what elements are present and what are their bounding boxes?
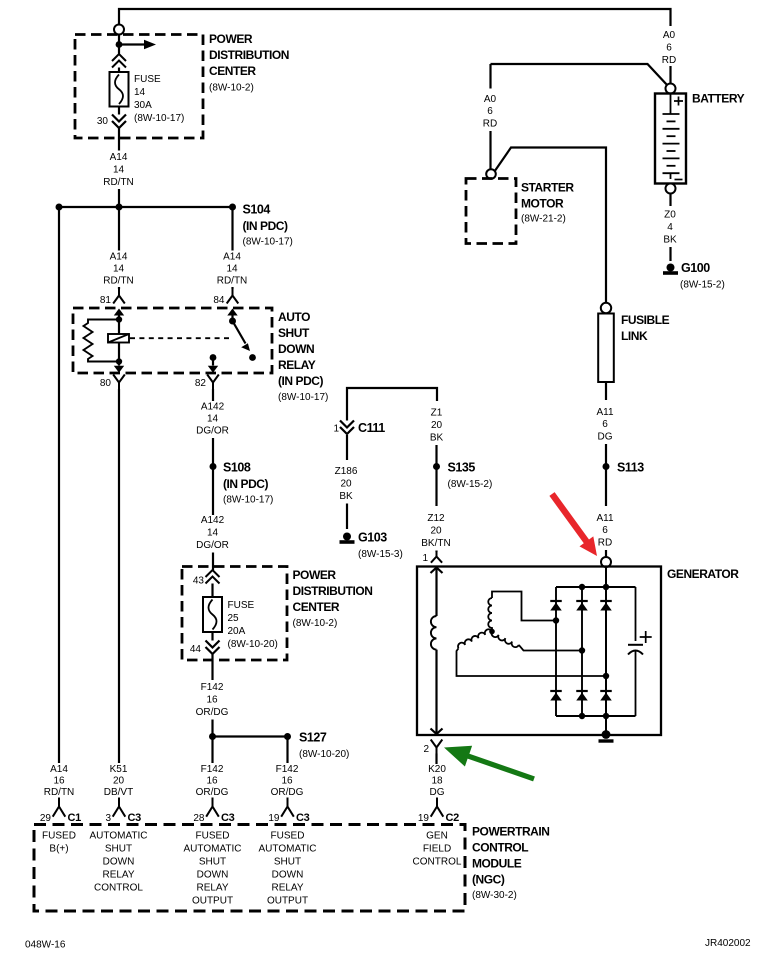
wire label to S127	[211, 720, 213, 737]
wire S135 down	[435, 467, 437, 507]
svg-text:CENTER: CENTER	[209, 64, 256, 78]
wire label to G100	[669, 247, 671, 261]
svg-text:C2: C2	[446, 812, 460, 824]
diode bridge bottom rail	[556, 715, 636, 717]
svg-text:JR402002: JR402002	[705, 938, 751, 949]
svg-text:16: 16	[206, 776, 218, 787]
svg-text:(IN PDC): (IN PDC)	[243, 219, 289, 233]
svg-text:14: 14	[226, 264, 238, 275]
wire pin 30 down to label A14	[118, 128, 120, 151]
svg-text:OR/DG: OR/DG	[196, 787, 229, 798]
svg-text:16: 16	[281, 776, 293, 787]
svg-text:(8W-10-17): (8W-10-17)	[278, 392, 328, 403]
svg-text:GENERATOR: GENERATOR	[667, 567, 739, 581]
generator stator phase A coil	[488, 598, 492, 632]
svg-text:OR/DG: OR/DG	[271, 787, 304, 798]
svg-text:AUTOMATIC: AUTOMATIC	[259, 844, 317, 855]
generator stator phase A lead	[492, 592, 556, 621]
svg-text:BK/TN: BK/TN	[421, 538, 450, 549]
svg-text:DB/VT: DB/VT	[104, 787, 133, 798]
svg-text:F142: F142	[201, 682, 224, 693]
svg-text:(8W-10-17): (8W-10-17)	[243, 237, 293, 248]
svg-text:GEN: GEN	[426, 831, 448, 842]
svg-text:(IN PDC): (IN PDC)	[223, 477, 269, 491]
svg-text:(8W-10-20): (8W-10-20)	[228, 639, 278, 650]
svg-text:S127: S127	[299, 731, 327, 745]
svg-text:A14: A14	[223, 252, 241, 263]
generator stator phase B lead	[457, 648, 607, 676]
red annotation arrow (generator output)	[549, 492, 597, 556]
svg-text:16: 16	[206, 695, 218, 706]
pin 84 connector symbol	[227, 289, 239, 304]
svg-text:CONTROL: CONTROL	[472, 841, 528, 855]
svg-text:(8W-15-2): (8W-15-2)	[680, 280, 725, 291]
svg-text:6: 6	[602, 419, 608, 430]
svg-text:BATTERY: BATTERY	[692, 92, 745, 106]
starter motor box	[466, 179, 516, 244]
relay pin 82 arrow inside	[212, 358, 214, 366]
svg-text:DG/OR: DG/OR	[196, 426, 229, 437]
svg-text:CONTROL: CONTROL	[413, 857, 462, 868]
svg-text:(8W-10-20): (8W-10-20)	[299, 749, 349, 760]
diode bridge left column	[555, 587, 557, 716]
wire pin 44 down	[211, 654, 213, 680]
junction dot phase B to bridge	[603, 673, 609, 679]
svg-text:S108: S108	[223, 461, 251, 475]
svg-text:18: 18	[431, 776, 443, 787]
svg-text:A11: A11	[596, 407, 613, 418]
relay mechanical link (dashed)	[130, 337, 231, 339]
svg-text:82: 82	[195, 378, 207, 389]
svg-text:C111: C111	[358, 421, 385, 435]
wire label to S113	[605, 444, 607, 467]
svg-text:A0: A0	[663, 30, 676, 41]
svg-text:RD/TN: RD/TN	[103, 177, 134, 188]
battery body	[655, 94, 686, 184]
svg-text:C3: C3	[128, 812, 142, 824]
wire K20 generator to PCM	[435, 754, 437, 765]
wire starter to fusible link	[495, 148, 606, 303]
svg-text:FIELD: FIELD	[423, 844, 451, 855]
svg-text:RD: RD	[598, 538, 612, 549]
svg-text:BK: BK	[663, 235, 677, 246]
svg-text:2: 2	[423, 744, 429, 755]
wire Z1 bridge (S135 to C111)	[347, 388, 437, 421]
diode D6 lower right	[600, 690, 612, 692]
svg-text:OUTPUT: OUTPUT	[267, 896, 308, 907]
svg-text:19: 19	[418, 813, 430, 824]
pin 29 connector symbol	[53, 798, 66, 817]
ground G100	[667, 264, 675, 272]
wire chevrons to fuse 25	[211, 584, 213, 598]
wire label to generator terminal	[605, 550, 607, 557]
svg-text:14: 14	[134, 87, 146, 98]
pin 80 connector symbol	[113, 375, 125, 390]
svg-text:C1: C1	[68, 812, 82, 824]
junction dot S127 left	[209, 733, 216, 740]
svg-text:44: 44	[190, 644, 202, 655]
wire S127 right branch down	[286, 737, 288, 764]
svg-text:OUTPUT: OUTPUT	[192, 896, 233, 907]
svg-text:SHUT: SHUT	[274, 857, 301, 868]
relay pin 84 arrow inside	[227, 309, 237, 316]
svg-text:20: 20	[430, 526, 442, 537]
svg-text:RELAY: RELAY	[196, 883, 228, 894]
svg-text:LINK: LINK	[621, 329, 648, 343]
wire K51 relay pin 80 to PCM	[118, 389, 120, 763]
pin 81 connector symbol	[113, 289, 125, 304]
battery minus sign	[675, 179, 683, 181]
wire S127 horizontal	[213, 735, 288, 737]
svg-text:14: 14	[113, 264, 125, 275]
svg-text:6: 6	[666, 43, 672, 54]
wire S108 down	[212, 467, 214, 516]
wire label to pin 84	[231, 287, 233, 289]
green annotation arrow (field control pin 2)	[444, 746, 535, 782]
svg-text:(IN PDC): (IN PDC)	[278, 374, 324, 388]
relay coil top junction dot	[116, 316, 122, 322]
pin 82 connector symbol	[207, 375, 219, 390]
wire S127 left branch down	[211, 737, 213, 764]
svg-text:(8W-15-2): (8W-15-2)	[448, 479, 493, 490]
svg-text:CONTROL: CONTROL	[94, 883, 143, 894]
svg-text:FUSIBLE: FUSIBLE	[621, 313, 670, 327]
svg-text:CENTER: CENTER	[293, 600, 340, 614]
diode D3 upper right	[600, 600, 612, 602]
svg-text:RD/TN: RD/TN	[103, 276, 134, 287]
svg-text:C3: C3	[296, 812, 310, 824]
junction dot S135	[433, 463, 440, 470]
svg-text:20: 20	[431, 420, 443, 431]
svg-text:K51: K51	[110, 764, 128, 775]
diode D2 upper middle	[576, 600, 588, 602]
svg-text:AUTO: AUTO	[278, 310, 310, 324]
diode bridge top rail	[556, 586, 636, 588]
junction dot S108	[210, 463, 217, 470]
relay contact dot (unused throw)	[249, 354, 256, 361]
svg-text:16: 16	[53, 776, 65, 787]
svg-text:SHUT: SHUT	[105, 844, 132, 855]
terminal circle PDC B+ feed	[114, 25, 124, 35]
svg-text:BK: BK	[430, 433, 444, 444]
svg-text:STARTER: STARTER	[521, 181, 574, 195]
svg-text:048W-16: 048W-16	[25, 940, 66, 951]
svg-text:POWERTRAIN: POWERTRAIN	[472, 825, 550, 839]
capacitor plus sign	[640, 631, 652, 643]
fuse F14 30A	[110, 72, 129, 107]
wire A142 from relay pin 82	[212, 389, 214, 401]
svg-text:19: 19	[268, 813, 280, 824]
connector chevrons pin 44	[206, 641, 220, 655]
svg-text:14: 14	[207, 414, 219, 425]
stator center junction dot	[489, 629, 495, 635]
relay switch arm (normally open)	[233, 321, 246, 344]
connector chevrons pin 43	[206, 570, 220, 584]
starter motor terminal circle	[486, 169, 496, 179]
svg-text:28: 28	[193, 813, 205, 824]
wire label to S135	[435, 445, 437, 467]
svg-text:DOWN: DOWN	[272, 870, 304, 881]
svg-text:A142: A142	[201, 515, 225, 526]
svg-text:(8W-15-3): (8W-15-3)	[358, 549, 403, 560]
junction dot S127	[284, 733, 291, 740]
arrow PDC bus feed (points right)	[122, 43, 145, 45]
wire A0 to battery below label	[669, 66, 671, 84]
svg-text:DG: DG	[430, 787, 445, 798]
generator output terminal circle	[601, 557, 611, 567]
junction dot S113	[603, 463, 610, 470]
wire S104 bus horizontal	[59, 206, 233, 208]
junction dot S104	[229, 204, 236, 211]
battery bottom stub	[670, 173, 672, 179]
svg-text:S104: S104	[243, 203, 271, 217]
diode bridge middle column	[581, 587, 583, 716]
svg-text:30A: 30A	[134, 100, 152, 111]
svg-text:RELAY: RELAY	[271, 883, 303, 894]
svg-text:29: 29	[40, 813, 52, 824]
svg-text:B(+): B(+)	[49, 844, 68, 855]
wire S104 to relay pin 84	[231, 207, 233, 251]
svg-text:FUSED: FUSED	[271, 831, 305, 842]
wire C111 to label Z186	[346, 435, 348, 460]
auto shut down relay box	[73, 308, 272, 373]
pin 19 C2 connector symbol	[431, 798, 444, 817]
wire S104 to relay pin 81	[118, 207, 120, 251]
svg-text:A14: A14	[50, 764, 68, 775]
wire fusible link down	[605, 382, 607, 400]
svg-text:(NGC): (NGC)	[472, 873, 505, 887]
svg-text:A14: A14	[110, 252, 128, 263]
relay switch pivot dot	[229, 318, 236, 325]
svg-text:S135: S135	[448, 461, 476, 475]
svg-text:1: 1	[333, 424, 339, 435]
pin 19 C3 connector symbol	[281, 798, 294, 817]
svg-text:RELAY: RELAY	[102, 870, 134, 881]
svg-text:20A: 20A	[228, 626, 246, 637]
svg-text:80: 80	[100, 378, 112, 389]
wire label to starter terminal	[489, 131, 491, 169]
svg-text:F142: F142	[201, 764, 224, 775]
svg-text:RD/TN: RD/TN	[44, 787, 75, 798]
svg-text:Z186: Z186	[335, 466, 358, 477]
wire label to G103	[346, 504, 348, 530]
svg-text:FUSED: FUSED	[42, 831, 76, 842]
battery top stub	[670, 94, 672, 115]
battery terminal circle top	[666, 84, 676, 94]
relay coil winding (box with diagonal)	[118, 321, 120, 334]
pin 3 connector symbol	[113, 798, 126, 817]
svg-text:81: 81	[100, 295, 112, 306]
connector chevrons above fuse 14	[112, 54, 126, 68]
svg-text:(8W-21-2): (8W-21-2)	[521, 214, 566, 225]
power distribution center box (8W-10-2)	[75, 35, 203, 139]
wire label to S108	[212, 438, 214, 467]
svg-text:25: 25	[228, 613, 240, 624]
svg-text:6: 6	[602, 525, 608, 536]
junction dot top rail mid	[579, 584, 585, 590]
svg-text:A14: A14	[110, 152, 128, 163]
svg-text:RELAY: RELAY	[278, 358, 316, 372]
svg-text:BK: BK	[339, 491, 353, 502]
fuse F25 20A	[203, 597, 222, 632]
svg-text:S113: S113	[617, 461, 644, 475]
svg-text:C3: C3	[221, 812, 235, 824]
svg-text:OR/DG: OR/DG	[196, 707, 229, 718]
connector chevrons pin 30	[112, 115, 126, 129]
svg-text:(8W-30-2): (8W-30-2)	[472, 890, 517, 901]
svg-text:AUTOMATIC: AUTOMATIC	[184, 844, 242, 855]
junction dot phase C to bridge	[579, 647, 585, 653]
svg-text:(8W-10-17): (8W-10-17)	[223, 495, 273, 506]
generator pin 2 connector symbol	[431, 740, 443, 755]
battery plates	[663, 113, 680, 115]
relay resistor R (parallel with coil)	[84, 320, 120, 362]
svg-text:Z12: Z12	[427, 513, 445, 524]
wire fuse 14 to pin 30	[118, 107, 120, 115]
svg-text:DOWN: DOWN	[278, 342, 314, 356]
battery plus sign	[674, 97, 683, 106]
wire from terminal into PDC	[118, 35, 120, 54]
svg-text:SHUT: SHUT	[199, 857, 226, 868]
diode bridge output column	[605, 567, 607, 731]
junction dot left branch	[56, 204, 63, 211]
connector C111 chevrons	[340, 421, 354, 435]
battery terminal circle bottom	[666, 184, 676, 194]
svg-text:DG: DG	[598, 432, 613, 443]
svg-text:DISTRIBUTION: DISTRIBUTION	[209, 48, 289, 62]
svg-text:FUSED: FUSED	[196, 831, 230, 842]
svg-text:30: 30	[97, 116, 109, 127]
junction dot phase A to bridge	[553, 617, 559, 623]
svg-text:G103: G103	[358, 531, 387, 545]
svg-text:3: 3	[105, 813, 111, 824]
svg-text:Z0: Z0	[664, 210, 676, 221]
svg-text:A11: A11	[596, 513, 613, 524]
svg-text:RD/TN: RD/TN	[217, 276, 248, 287]
svg-text:(8W-10-2): (8W-10-2)	[209, 83, 254, 94]
generator field coil	[431, 616, 437, 650]
wire label to PDC fuse box	[212, 553, 214, 571]
svg-text:Z1: Z1	[431, 408, 443, 419]
svg-text:DISTRIBUTION: DISTRIBUTION	[293, 584, 373, 598]
junction dot PDC bus	[116, 41, 123, 48]
diode D4 lower left	[550, 690, 562, 692]
generator stator phase C coil (right)	[492, 632, 519, 648]
wire label to S104 bus	[118, 189, 120, 207]
fusible link body	[598, 314, 614, 383]
wire starter drop	[489, 64, 491, 89]
ground G103	[343, 533, 351, 541]
svg-text:FUSE: FUSE	[228, 600, 255, 611]
svg-text:FUSE: FUSE	[134, 74, 161, 85]
wire battery feed top	[119, 9, 671, 26]
relay pin 81 arrow inside	[114, 309, 124, 316]
junction dot bottom rail right	[603, 713, 609, 719]
svg-text:14: 14	[207, 528, 219, 539]
svg-text:(8W-10-17): (8W-10-17)	[134, 113, 184, 124]
wire S113 down	[605, 467, 607, 507]
wire battery to starter/fusible junction	[491, 64, 667, 85]
relay pin 80 arrow inside	[118, 362, 120, 366]
generator box	[417, 567, 661, 736]
svg-text:A142: A142	[201, 402, 225, 413]
svg-text:AUTOMATIC: AUTOMATIC	[90, 831, 148, 842]
svg-text:F142: F142	[276, 764, 299, 775]
svg-text:RD: RD	[662, 55, 676, 66]
svg-text:G100: G100	[681, 261, 710, 275]
wire label to pin 81	[118, 287, 120, 289]
wire fuse 25 to pin 44	[211, 632, 213, 641]
wire chevron to fuse 14	[118, 68, 120, 73]
svg-text:MODULE: MODULE	[472, 857, 522, 871]
relay contact dot to pin 82	[210, 354, 217, 361]
generator pin 1 connector symbol	[431, 551, 442, 563]
svg-text:6: 6	[487, 106, 493, 117]
svg-text:84: 84	[213, 295, 225, 306]
svg-text:14: 14	[113, 165, 125, 176]
junction dot top rail right	[603, 584, 609, 590]
svg-text:SHUT: SHUT	[278, 326, 310, 340]
svg-text:POWER: POWER	[293, 568, 337, 582]
svg-text:DG/OR: DG/OR	[196, 540, 229, 551]
generator internal ground	[602, 730, 611, 739]
svg-text:RD: RD	[483, 119, 497, 130]
svg-text:20: 20	[113, 776, 125, 787]
svg-text:43: 43	[193, 576, 205, 587]
generator stator phase C lead	[519, 645, 582, 651]
junction dot S104 center	[116, 204, 123, 211]
wire A14 16 RD/TN long left branch	[58, 207, 60, 763]
capacitor C (generator suppression)	[635, 587, 637, 641]
generator field wire with arrows	[431, 568, 443, 574]
svg-text:K20: K20	[428, 764, 446, 775]
diode D1 upper left	[550, 600, 562, 602]
generator stator phase B coil (left)	[458, 629, 492, 648]
svg-text:20: 20	[340, 479, 352, 490]
svg-text:A0: A0	[484, 94, 497, 105]
svg-text:POWER: POWER	[209, 32, 253, 46]
power distribution center box 2 (8W-10-2)	[182, 567, 287, 661]
fusible link terminal circle	[601, 303, 611, 313]
svg-text:MOTOR: MOTOR	[521, 197, 564, 211]
svg-text:1: 1	[422, 553, 428, 564]
diode D5 lower middle	[576, 690, 588, 692]
wire battery negative down	[669, 194, 671, 207]
svg-text:4: 4	[667, 222, 673, 233]
svg-text:DOWN: DOWN	[197, 870, 229, 881]
wire label to generator pin 1	[435, 551, 437, 553]
svg-text:DOWN: DOWN	[103, 857, 135, 868]
svg-text:(8W-10-2): (8W-10-2)	[293, 618, 338, 629]
junction dot bottom rail mid	[579, 713, 585, 719]
pin 28 connector symbol	[206, 798, 219, 817]
relay coil bottom junction dot	[116, 358, 122, 364]
powertrain control module box	[34, 825, 465, 912]
